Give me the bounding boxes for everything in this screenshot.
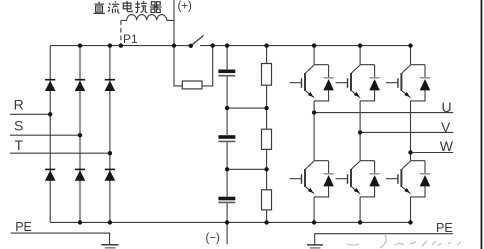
transistor Q1 with antiparallel diode D7 xyxy=(290,65,334,101)
node W tap xyxy=(408,150,412,154)
resistor R0 precharge left lead xyxy=(174,46,182,86)
wire midlink 2 xyxy=(227,168,267,170)
wire (+) terminal vertical xyxy=(173,0,175,46)
char 抗 xyxy=(135,1,147,13)
resistor R0 precharge body xyxy=(182,81,202,89)
wire midlink2 to C3 xyxy=(226,169,228,196)
node midlink1 left xyxy=(225,106,229,110)
transistor Q3 with antiparallel diode D9 xyxy=(336,65,380,101)
node P1 xyxy=(119,43,123,47)
svg-text:P1: P1 xyxy=(123,32,138,46)
switch S1 blade xyxy=(191,35,204,46)
node R tap xyxy=(48,112,52,116)
node cap chain top xyxy=(225,43,229,47)
ground symbol right xyxy=(307,244,323,246)
node T tap xyxy=(108,151,112,155)
diode D6 rectifier bottom leg3 xyxy=(105,169,116,180)
diode D5 rectifier bottom leg2 xyxy=(75,169,86,180)
char 器 xyxy=(150,2,162,13)
wire U output line xyxy=(314,112,453,114)
wire rectifier leg 1 (R phase) xyxy=(49,46,51,223)
inductor L1 DC reactor xyxy=(121,15,174,21)
wire S input line xyxy=(10,134,80,136)
wire inverter column 1 lower drop xyxy=(313,197,315,223)
node top bus leg2 xyxy=(78,43,82,47)
wire W output line xyxy=(411,152,454,154)
svg-text:W: W xyxy=(440,138,454,154)
svg-text:V: V xyxy=(441,119,451,135)
wire PE right line xyxy=(315,234,453,245)
transistor Q4 with antiparallel diode D10 xyxy=(336,161,380,197)
node V tap xyxy=(358,130,362,134)
wire inverter column 3 upper drop xyxy=(410,46,412,65)
diode D1 rectifier top leg1 xyxy=(45,80,56,91)
wire bottom DC bus xyxy=(50,221,410,223)
ground symbol left xyxy=(101,244,118,246)
wire resistor chain top lead xyxy=(266,46,268,64)
wire midlink2 to R3 xyxy=(266,169,268,190)
node res chain top xyxy=(264,43,268,47)
capacitor C1 top plate xyxy=(218,70,235,74)
svg-text:S: S xyxy=(14,118,23,134)
wire top DC bus left segment xyxy=(50,45,191,47)
node bottom col2 xyxy=(358,220,362,224)
capacitor C1 bottom plate xyxy=(218,75,235,77)
node plus junction xyxy=(172,43,176,47)
wire inverter column 3 lower drop xyxy=(410,197,412,223)
capacitor C3 top plate xyxy=(218,197,235,201)
frame right border xyxy=(481,0,483,249)
wire capacitor chain top lead xyxy=(226,46,228,70)
node col3 top xyxy=(408,43,412,47)
wire C1 to midlink1 xyxy=(226,77,228,109)
wire midlink1 to R2 xyxy=(266,108,268,129)
wire rectifier leg 2 (S phase) xyxy=(79,46,81,223)
node bottom leg3 xyxy=(108,220,112,224)
node bottom res chain xyxy=(264,220,268,224)
node bottom col3 xyxy=(408,220,412,224)
capacitor C2 top plate xyxy=(218,135,235,139)
svg-text:(+): (+) xyxy=(178,1,193,13)
node bottom leg2 xyxy=(78,220,82,224)
diode D2 rectifier top leg2 xyxy=(75,80,86,91)
diode D4 rectifier bottom leg1 xyxy=(45,169,56,180)
wire rectifier leg 3 (T phase) xyxy=(109,46,111,223)
watermark scribble xyxy=(347,235,461,248)
node top bus leg3 xyxy=(108,43,112,47)
node U tap xyxy=(312,110,316,114)
wire inverter column 2 middle xyxy=(359,101,361,161)
wire C3 to minus stub xyxy=(226,203,228,244)
label DC reactor Chinese text 直流电抗器 xyxy=(94,1,162,14)
wire V output line xyxy=(360,131,453,133)
transistor Q5 with antiparallel diode D11 xyxy=(386,65,430,101)
wire inverter column 1 upper drop xyxy=(313,46,315,65)
transistor Q2 with antiparallel diode D8 xyxy=(290,161,334,197)
resistor R1 body xyxy=(262,64,272,86)
svg-text:PE: PE xyxy=(15,220,32,234)
svg-text:PE: PE xyxy=(436,221,453,235)
char 电 xyxy=(123,1,132,12)
wire inverter column 2 upper drop xyxy=(359,46,361,65)
wire midlink1 to C2 xyxy=(226,108,228,135)
node bottom col1 xyxy=(312,220,316,224)
wire R2 to midlink2 xyxy=(266,149,268,169)
svg-text:U: U xyxy=(442,99,452,115)
resistor R0 precharge right lead xyxy=(202,46,213,86)
wire R3 to bottom bus xyxy=(266,210,268,223)
node bottom cap chain xyxy=(225,220,229,224)
node col1 top xyxy=(312,43,316,47)
capacitor C2 bottom plate xyxy=(218,140,235,142)
node midlink1 right xyxy=(264,106,268,110)
diode D3 rectifier top leg3 xyxy=(105,80,116,91)
wire PE left line xyxy=(11,233,110,245)
wire T input line xyxy=(10,152,110,154)
wire top DC bus right segment xyxy=(200,45,411,47)
node S tap xyxy=(78,133,82,137)
wire R input line xyxy=(10,113,50,115)
node midlink2 right xyxy=(264,167,268,171)
node switch contact xyxy=(189,44,193,48)
node resistor right top xyxy=(211,43,215,47)
capacitor C3 bottom plate xyxy=(218,201,235,203)
node col2 top xyxy=(358,43,362,47)
svg-text:R: R xyxy=(14,97,24,113)
wire inverter column 1 middle xyxy=(313,101,315,161)
wire dashed P1 drop xyxy=(120,20,122,45)
wire inverter column 2 lower drop xyxy=(359,197,361,223)
wire R1 to midlink1 xyxy=(266,85,268,108)
resistor R3 body xyxy=(262,190,272,210)
char 直 xyxy=(94,2,105,14)
svg-text:T: T xyxy=(15,137,24,153)
resistor R2 body xyxy=(262,129,272,149)
svg-text:(−): (−) xyxy=(206,233,221,245)
char 流 xyxy=(108,1,120,13)
wire C2 to midlink2 xyxy=(226,142,228,169)
wire inverter column 3 middle xyxy=(410,101,412,161)
transistor Q6 with antiparallel diode D12 xyxy=(386,161,430,197)
node midlink2 left xyxy=(225,167,229,171)
wire midlink 1 xyxy=(227,107,267,109)
